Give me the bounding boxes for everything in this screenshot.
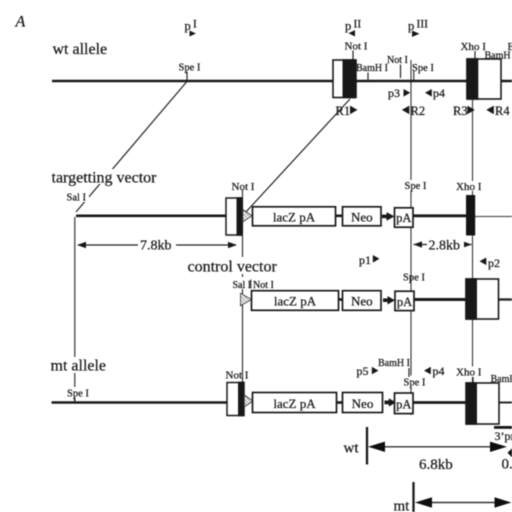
white gap rect: 7.8kb: [138, 237, 176, 252]
svg-text:Neo: Neo: [352, 396, 374, 411]
svg-text:p4: p4: [433, 364, 445, 378]
targetting vector trailing thin line: [475, 216, 512, 218]
vertical net line Sal I (x=74.8): [74, 217, 76, 401]
mt fragment dimension: left bar: [412, 482, 414, 512]
white gap rect: mt allele title: [49, 357, 108, 373]
svg-text:Sal I: Sal I: [233, 280, 252, 291]
svg-text:6.8kb: 6.8kb: [419, 457, 453, 473]
white gap rect: Sal I row2: [66, 191, 89, 202]
control vector Neo box: [343, 291, 382, 311]
wt allele line: [52, 80, 512, 83]
svg-text:III: III: [417, 19, 429, 31]
svg-text:R2: R2: [411, 104, 426, 118]
vertical net line Xho I (x=472.5): [472, 99, 474, 400]
wt fragment dimension line: [380, 446, 492, 448]
primer R4 arrow: [486, 106, 494, 115]
svg-text:mt: mt: [394, 499, 411, 512]
targetting vector connector lacZ-Neo: [335, 215, 343, 218]
white gap rect: SalI NotI row3: [231, 277, 276, 289]
control vector connector lacZ-Neo: [338, 298, 343, 301]
primer arrow under p I: [190, 31, 197, 37]
primer arrow under p II: [349, 30, 356, 37]
svg-text:Spe I: Spe I: [403, 273, 425, 284]
restriction tick Xho I mt: [472, 377, 474, 383]
control vector exon2 box: [466, 279, 499, 319]
control vector mini arrow Neo->pA: [383, 298, 389, 302]
svg-text:BamH I: BamH I: [491, 374, 512, 385]
svg-text:Spe I: Spe I: [179, 63, 201, 74]
svg-text:p: p: [345, 19, 351, 33]
white gap rect: Spe I row4 left: [66, 387, 92, 398]
restriction tick Spe I wt secondary stroke: [413, 71, 415, 81]
svg-text:Neo: Neo: [351, 210, 373, 225]
primer p3 arrow: [404, 89, 411, 97]
mt allele line: [52, 401, 230, 404]
targetting vector pA box: [395, 208, 414, 227]
control vector pA box: [395, 291, 414, 310]
targetting vector Neo box: [343, 207, 382, 226]
restriction tick between Sal I and Not I row3: [250, 280, 252, 289]
3' probe bar: [494, 426, 512, 429]
svg-text:pA: pA: [397, 295, 412, 309]
mt connector lacZ-Neo: [336, 401, 343, 404]
diagonal wire from wt exon1 to targetting vector Not I: [245, 99, 350, 213]
svg-text:3’pro: 3’pro: [495, 429, 512, 443]
primer p4 arrow mt: [424, 367, 431, 375]
primer arrow under p III: [412, 31, 420, 38]
svg-text:II: II: [354, 19, 362, 31]
primer p1 arrow: [373, 255, 380, 263]
svg-text:A: A: [15, 14, 26, 31]
svg-text:BamH I: BamH I: [378, 358, 410, 369]
svg-text:2.8kb: 2.8kb: [429, 239, 461, 254]
restriction tick BamH I mt: [408, 368, 410, 377]
white gap rect: Spe I row2: [403, 180, 429, 191]
restriction tick Not I wt left: [352, 51, 354, 60]
svg-text:pA: pA: [396, 398, 411, 412]
restriction tick Xho I wt: [474, 51, 476, 59]
white gap rect: Xho I row4: [455, 367, 482, 378]
white gap rect: targetting vector title: [50, 169, 159, 184]
svg-text:E: E: [508, 42, 512, 53]
svg-text:Not I: Not I: [345, 41, 368, 53]
svg-text:targetting vector: targetting vector: [52, 170, 158, 187]
vertical net line Spe I (x=411): [410, 60, 412, 415]
svg-text:Not I: Not I: [387, 55, 408, 66]
svg-text:p4: p4: [433, 86, 445, 100]
primer R1 arrow: [350, 106, 358, 115]
svg-text:p5: p5: [357, 364, 369, 378]
svg-text:Xho I: Xho I: [461, 41, 487, 53]
targetting vector line pA to XhoI bar: [412, 214, 467, 217]
exon 2 box wt (black+white): [467, 59, 501, 99]
svg-text:p: p: [408, 19, 414, 33]
white gap rect: 2.8kb: [427, 238, 464, 252]
mt line pA to exon2: [412, 401, 467, 404]
exon 1 box wt (white+black): [333, 60, 356, 98]
svg-text:lacZ pA: lacZ pA: [274, 294, 317, 309]
primer R2 arrow: [402, 106, 410, 115]
mt lacZ pA box: [253, 393, 337, 413]
restriction tick BamH I wt: [367, 73, 369, 81]
targetting vector hatched arrow: [243, 210, 252, 223]
svg-text:p3: p3: [388, 86, 400, 100]
mt hatched arrow: [244, 395, 253, 407]
primer p2 arrow: [480, 258, 487, 266]
svg-text:7.8kb: 7.8kb: [140, 239, 172, 254]
svg-text:Not I: Not I: [232, 181, 255, 193]
restriction tick Spe I wt: [186, 72, 188, 81]
svg-text:Spe I: Spe I: [404, 378, 426, 389]
svg-text:Not I: Not I: [253, 280, 274, 291]
wt fragment dimension: left bar: [366, 427, 368, 465]
svg-text:BamH I: BamH I: [356, 63, 388, 74]
targetting vector mini arrow Neo->pA: [382, 215, 388, 219]
primer R3 arrow: [467, 106, 475, 115]
svg-text:R4: R4: [495, 104, 510, 118]
svg-text:R1: R1: [336, 104, 351, 118]
svg-text:Neo: Neo: [351, 294, 373, 309]
mt Neo box: [343, 393, 383, 413]
svg-text:mt allele: mt allele: [51, 358, 107, 375]
primer p5 arrow: [372, 367, 379, 375]
diagonal wire from wt Spe I to targetting vector Sal I: [76, 82, 187, 212]
svg-text:Spe I: Spe I: [67, 389, 89, 400]
svg-text:control vector: control vector: [188, 259, 278, 276]
mt mini arrow Neo->pA: [385, 400, 390, 404]
svg-text:p: p: [185, 19, 191, 33]
svg-text:Sal I: Sal I: [67, 193, 87, 204]
white gap rect: control vector title: [186, 257, 279, 274]
svg-text:Xho I: Xho I: [456, 181, 482, 193]
control vector hatched arrow: [241, 293, 252, 306]
7.8kb dimension line: [78, 244, 236, 246]
targetting vector 5' box (white+black bar): [226, 198, 242, 235]
svg-text:Not I: Not I: [226, 370, 249, 382]
targetting vector Xho I black bar: [466, 195, 475, 236]
svg-text:p1: p1: [359, 253, 371, 267]
control vector trailing line: [498, 298, 512, 300]
svg-text:0.9: 0.9: [502, 457, 512, 473]
mt 5' box (white+black bar): [227, 383, 244, 416]
mt pA box: [395, 393, 414, 414]
mt fragment dimension line: [428, 502, 497, 504]
svg-text:lacZ pA: lacZ pA: [273, 210, 316, 225]
mt trailing line: [498, 402, 512, 404]
svg-text:Spe I: Spe I: [412, 63, 434, 74]
white gap rect: Spe I row4 mid: [402, 376, 427, 388]
svg-text:lacZ pA: lacZ pA: [273, 396, 316, 411]
control vector line pA to exon2: [413, 298, 467, 301]
svg-text:R3: R3: [453, 104, 468, 118]
2.8kb dimension line: [414, 244, 472, 246]
svg-text:pA: pA: [396, 211, 411, 225]
targetting vector arm line: [76, 215, 228, 218]
partial next dimension arrow (0.9kb): [508, 448, 512, 457]
svg-text:wt: wt: [344, 441, 360, 457]
restriction tick Spe I mt left: [74, 398, 76, 402]
svg-text:Spe I: Spe I: [405, 181, 427, 192]
targetting vector lacZ pA box: [253, 207, 336, 226]
svg-text:I: I: [193, 19, 197, 31]
svg-text:wt allele: wt allele: [53, 41, 108, 58]
control vector lacZ pA box: [252, 291, 339, 311]
restriction tick Not I wt mid: [400, 65, 402, 79]
vertical net line Not I (x=242.5): [242, 190, 244, 401]
white gap rect: Xho I row2: [455, 181, 482, 191]
primer p4 arrow wt: [425, 89, 432, 97]
svg-text:Xho I: Xho I: [456, 367, 482, 379]
mt exon2 box: [466, 383, 499, 424]
svg-text:p2: p2: [488, 256, 500, 270]
